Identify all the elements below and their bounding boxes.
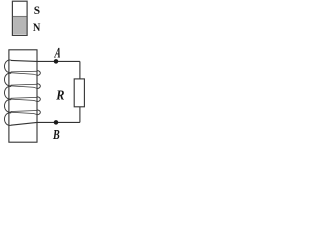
coil turn 1 right bump xyxy=(37,71,40,76)
coil turn 2 left arc xyxy=(5,73,12,86)
coil turn 3 right bump xyxy=(37,97,40,102)
svg-text:N: N xyxy=(33,21,41,34)
coil turn 2 right bump xyxy=(37,84,40,89)
coil turn 4 left arc xyxy=(5,100,12,113)
svg-text:B: B xyxy=(52,126,60,142)
magnet bar body xyxy=(12,1,27,35)
coil turn 4 right bump xyxy=(37,110,40,115)
coil turn 4 front wires xyxy=(11,111,37,115)
node A junction dot xyxy=(54,59,59,64)
wire bottom return to coil xyxy=(11,122,80,125)
wire resistor bottom lead xyxy=(79,107,81,123)
coil turn 3 left arc xyxy=(5,86,12,99)
node B junction dot xyxy=(54,120,59,125)
coil turn 2 front wires xyxy=(11,84,37,88)
coil turn 3 front wires xyxy=(11,97,37,101)
svg-text:S: S xyxy=(34,4,40,17)
coil turn 1 front wires xyxy=(11,71,37,75)
coil core rectangle xyxy=(9,50,37,142)
wire right vertical down to resistor xyxy=(79,61,81,79)
magnet N pole shading xyxy=(13,17,26,34)
coil turn 5 left arc xyxy=(5,113,12,126)
resistor R body xyxy=(74,79,84,107)
svg-text:R: R xyxy=(55,87,64,103)
coil turn 1 left arc xyxy=(5,60,12,73)
wire from coil top turn to node A and resistor branch xyxy=(11,60,80,61)
magnet pole divider xyxy=(13,16,27,18)
